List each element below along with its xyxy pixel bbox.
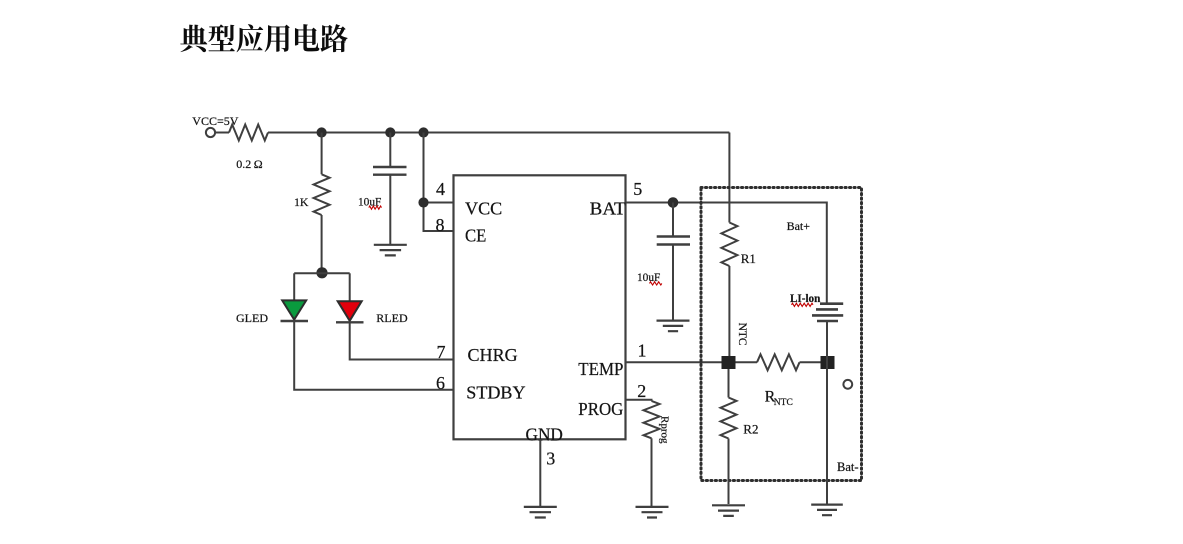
wire: NTC node to R2 [728, 369, 730, 398]
ground under C2 [657, 321, 690, 332]
wire: square to RNTC [736, 361, 758, 363]
node junction at C2 tap [668, 197, 679, 208]
svg-text:Bat+: Bat+ [787, 219, 811, 233]
svg-text:STDBY: STDBY [466, 382, 526, 402]
resistor 1K [314, 174, 330, 215]
resistor 0.2ohm [229, 125, 268, 141]
svg-text:6: 6 [436, 373, 445, 393]
svg-text:R1: R1 [741, 251, 756, 266]
svg-text:RLED: RLED [376, 311, 408, 325]
wire: GND pin 3 to ground [539, 439, 541, 506]
svg-text:0.2 Ω: 0.2 Ω [236, 157, 262, 171]
node NTC left square junction [722, 356, 736, 369]
svg-text:Rprog: Rprog [659, 416, 671, 444]
svg-text:GLED: GLED [236, 311, 268, 325]
battery LI-Ion cells [812, 304, 843, 321]
resistor R2 [721, 398, 737, 439]
wire: green LED anode drop [293, 273, 295, 300]
wire: battery negative to ground [826, 321, 828, 504]
svg-text:1: 1 [638, 341, 647, 361]
svg-text:LI-lon: LI-lon [790, 291, 821, 305]
svg-text:VCC: VCC [465, 198, 502, 218]
svg-text:1K: 1K [294, 195, 309, 209]
svg-text:PROG: PROG [578, 399, 623, 419]
svg-text:R2: R2 [743, 421, 758, 436]
wire: BAT to capacitor C2 [672, 203, 674, 236]
node junction on rail at VCC/CE branch [418, 127, 428, 137]
wire: R1 to NTC node [728, 266, 730, 356]
spellcheck squiggle under LI-lon [792, 303, 814, 306]
ground under GND pin [524, 507, 557, 518]
wire: stub to pin 4 VCC [424, 202, 454, 204]
terminal small circle O [843, 380, 852, 389]
svg-text:CHRG: CHRG [468, 345, 519, 365]
svg-text:Bat-: Bat- [837, 460, 859, 474]
svg-text:7: 7 [437, 342, 446, 362]
node junction on rail at C1 branch [385, 127, 395, 137]
node right square junction on battery wire [821, 356, 835, 369]
op IC body TP4056 [454, 175, 626, 439]
wire: VCC input stub [215, 132, 229, 134]
wire: rail drop to VCC/CE pins [424, 133, 454, 232]
resistor Rprog [644, 401, 660, 438]
ground under battery [811, 505, 843, 516]
svg-text:8: 8 [436, 215, 445, 235]
svg-text:NTC: NTC [736, 323, 748, 346]
LED RLED (red) [338, 301, 362, 321]
wire: TEMP pin 1 to NTC node [626, 361, 722, 363]
wire: RNTC to right square [800, 361, 821, 363]
spellcheck squiggle under uF [369, 206, 382, 209]
title 典型应用电路 [180, 24, 347, 52]
svg-text:TEMP: TEMP [578, 359, 623, 379]
battery enclosure dashed box [701, 188, 862, 481]
node junction on rail at 1K branch [317, 127, 327, 137]
wire: R2 to ground [728, 439, 730, 505]
resistor RNTC [757, 354, 800, 370]
wire: RLED cathode to CHRG pin 7 [350, 322, 454, 359]
wire: rail drop to R1 [728, 133, 730, 223]
ground under R2 [712, 505, 745, 516]
ground under C1 [374, 245, 407, 256]
wire: 1K to LED split node [321, 215, 323, 273]
node LED split junction [316, 267, 327, 278]
wire: top 5V rail [268, 132, 729, 134]
svg-text:3: 3 [546, 449, 555, 469]
capacitor C2 10uF [657, 237, 690, 245]
svg-text:GND: GND [526, 425, 563, 445]
spellcheck squiggle under uF (C2) [650, 282, 662, 285]
wire: GLED cathode to STDBY pin 6 [294, 321, 453, 390]
svg-text:CE: CE [465, 225, 486, 245]
terminal VCC=5V input circle [206, 128, 215, 137]
svg-text:2: 2 [637, 381, 646, 401]
svg-text:4: 4 [436, 179, 445, 199]
ground under Rprog [636, 507, 669, 518]
wire: rail to capacitor C1 [389, 133, 391, 167]
wire: LED split bar [294, 272, 350, 274]
wire: Rprog to ground [651, 438, 653, 506]
LED GLED (green) [282, 300, 306, 319]
wire: PROG pin 2 stub [626, 400, 652, 401]
svg-text:BAT: BAT [590, 198, 626, 218]
wire: red LED anode drop [349, 273, 351, 301]
capacitor C1 10uF [373, 167, 407, 175]
svg-text:NTC: NTC [774, 398, 793, 408]
svg-text:10uF: 10uF [637, 270, 661, 284]
svg-text:5: 5 [633, 179, 642, 199]
resistor R1 [721, 223, 737, 267]
node junction at pin 4 tee [418, 197, 428, 207]
wire: rail to 1K resistor [321, 133, 323, 175]
wire: BAT pin 5 rail [626, 203, 827, 304]
